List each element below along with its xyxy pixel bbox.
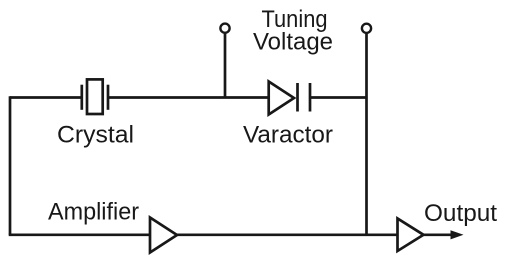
svg-text:Varactor: Varactor xyxy=(243,122,333,149)
svg-text:Amplifier: Amplifier xyxy=(48,199,139,226)
svg-text:Output: Output xyxy=(424,200,497,227)
svg-text:Crystal: Crystal xyxy=(57,121,134,148)
svg-text:Voltage: Voltage xyxy=(253,29,333,56)
